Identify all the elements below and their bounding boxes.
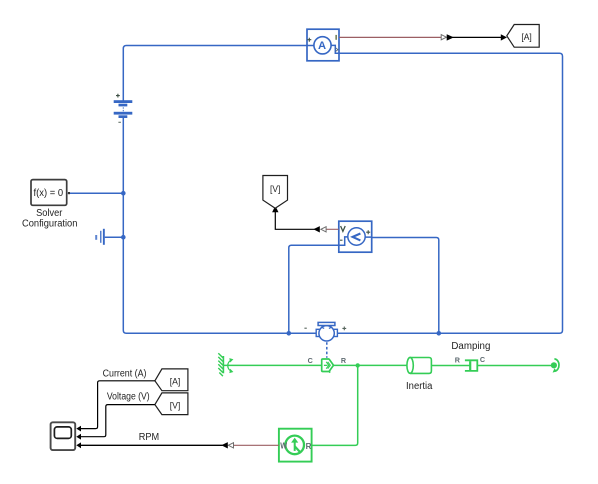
svg-text:R: R — [455, 355, 461, 364]
svg-text:RPM: RPM — [139, 432, 159, 443]
svg-text:W: W — [280, 442, 287, 451]
svg-text:f(x) = 0: f(x) = 0 — [34, 188, 64, 199]
svg-text:Damping: Damping — [451, 341, 490, 352]
svg-text:[A]: [A] — [521, 32, 531, 43]
svg-text:Inertia: Inertia — [406, 381, 433, 392]
svg-text:[A]: [A] — [170, 376, 181, 387]
svg-text:R: R — [341, 356, 347, 365]
svg-text:C: C — [308, 356, 313, 365]
svg-text:Current (A): Current (A) — [103, 368, 147, 379]
svg-text:A: A — [318, 40, 326, 52]
svg-text:R: R — [306, 442, 312, 451]
svg-text:Solver: Solver — [36, 208, 63, 219]
svg-text:[V]: [V] — [270, 184, 280, 195]
svg-text:C: C — [480, 355, 485, 364]
svg-text:Configuration: Configuration — [22, 219, 77, 230]
svg-text:Voltage (V): Voltage (V) — [107, 392, 150, 403]
svg-text:[V]: [V] — [170, 400, 181, 411]
